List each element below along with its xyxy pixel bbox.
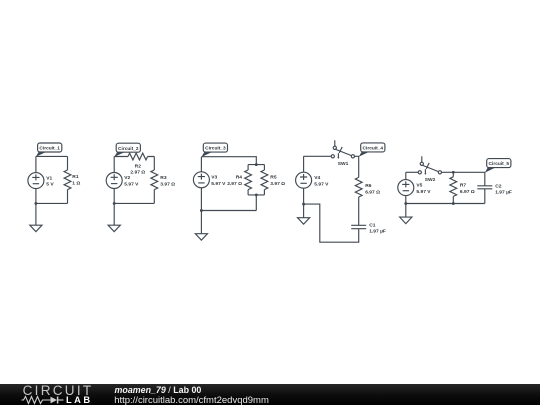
svg-text:Circuit_5: Circuit_5 [489,161,510,167]
svg-text:R5: R5 [270,175,277,181]
svg-text:Circuit_3: Circuit_3 [205,146,226,152]
svg-text:1.97 µF: 1.97 µF [369,229,386,235]
svg-text:5.97 V: 5.97 V [416,189,431,195]
svg-text:R1: R1 [72,174,79,180]
svg-text:3.97 Ω: 3.97 Ω [270,181,285,187]
svg-text:SW2: SW2 [425,177,436,183]
svg-text:Circuit_2: Circuit_2 [118,146,139,152]
svg-text:6.97 Ω: 6.97 Ω [460,189,475,195]
svg-text:V4: V4 [314,175,320,181]
svg-text:V1: V1 [46,175,52,181]
svg-text:6.97 Ω: 6.97 Ω [365,189,380,195]
svg-text:Circuit_4: Circuit_4 [363,146,384,152]
svg-text:R2: R2 [135,163,142,169]
svg-text:2.97 Ω: 2.97 Ω [130,170,145,176]
svg-text:5.97 V: 5.97 V [124,182,139,188]
svg-text:V5: V5 [416,183,422,189]
svg-text:R4: R4 [236,175,243,181]
svg-text:5.97 V: 5.97 V [314,181,329,187]
svg-text:2.97 Ω: 2.97 Ω [227,181,242,187]
svg-text:5 V: 5 V [46,182,54,188]
svg-text:SW1: SW1 [338,161,349,167]
svg-text:V2: V2 [124,175,130,181]
svg-text:Circuit_1: Circuit_1 [39,146,60,152]
svg-text:R3: R3 [160,175,167,181]
svg-text:C2: C2 [495,183,502,189]
svg-text:1 Ω: 1 Ω [72,181,80,187]
svg-text:R7: R7 [460,183,467,189]
svg-text:V3: V3 [211,175,217,181]
svg-text:1.97 µF: 1.97 µF [495,190,512,196]
svg-text:5.97 V: 5.97 V [211,181,226,187]
svg-text:3.97 Ω: 3.97 Ω [160,181,175,187]
svg-text:R6: R6 [365,183,372,189]
svg-text:C1: C1 [369,222,376,228]
